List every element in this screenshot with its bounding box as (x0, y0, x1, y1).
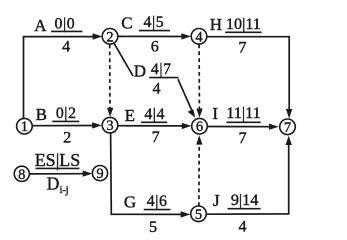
node 4 (191, 29, 207, 46)
label activity I (212, 104, 260, 147)
svg-text:1: 1 (21, 119, 28, 135)
svg-text:C: C (121, 14, 132, 33)
node 5 (191, 206, 207, 223)
svg-text:4: 4 (62, 38, 70, 56)
legend wire node 8 to node 9 (30, 173, 84, 175)
node 9 (legend) (92, 166, 107, 183)
wire I (node 6 to node 7) (208, 126, 270, 128)
svg-text:D: D (47, 174, 60, 194)
label legend ES|LS (35, 150, 81, 170)
svg-text:4|6: 4|6 (147, 193, 168, 210)
svg-text:4: 4 (153, 80, 161, 98)
arrowhead J into node 7 bottom (286, 136, 292, 145)
label activity J (213, 191, 261, 236)
svg-text:4: 4 (239, 218, 247, 233)
svg-text:7: 7 (284, 120, 291, 136)
label activity H (210, 15, 262, 56)
dashed dummy wire node 5 to node 6 (198, 144, 200, 207)
svg-text:ES|LS: ES|LS (35, 150, 81, 170)
wire B (node 1 to node 3) (32, 125, 93, 127)
svg-text:I: I (212, 104, 218, 123)
label activity D (134, 61, 179, 97)
svg-text:i-j: i-j (60, 185, 69, 196)
svg-text:7: 7 (238, 38, 246, 56)
wire J (elbow from node 5 right then up to node 7) (206, 144, 288, 214)
svg-text:E: E (125, 106, 135, 125)
label activity A (34, 15, 82, 55)
svg-text:B: B (36, 105, 47, 124)
label activity G (124, 192, 171, 235)
svg-text:6: 6 (151, 38, 159, 56)
svg-text:7: 7 (238, 129, 246, 147)
wire A (elbow from node 1 up then right to node 2) (24, 37, 94, 119)
wire H (elbow from node 4 right then down to node 7) (207, 37, 289, 110)
svg-text:2: 2 (63, 129, 71, 147)
svg-text:4|4: 4|4 (144, 106, 165, 123)
svg-text:10|11: 10|11 (226, 15, 261, 33)
svg-text:4|5: 4|5 (144, 14, 165, 31)
arrowhead B into node 3 (92, 122, 102, 128)
node 1 (17, 118, 33, 135)
svg-text:D: D (134, 61, 146, 80)
arrowhead I into node 7 (269, 124, 279, 130)
arrowhead G into node 5 (181, 211, 191, 217)
node 8 (legend) (14, 166, 29, 183)
svg-text:0|0: 0|0 (55, 15, 76, 32)
node 6 (192, 118, 208, 135)
arrowhead A into node 2 (93, 33, 103, 39)
svg-text:7: 7 (152, 128, 160, 146)
svg-text:5: 5 (149, 218, 157, 233)
arrowhead dummy into node 6 top (196, 109, 202, 118)
node 3 (102, 117, 118, 134)
svg-text:G: G (124, 192, 136, 211)
dashed dummy wire node 2 to node 3 (109, 45, 111, 109)
svg-text:9: 9 (96, 166, 103, 182)
svg-text:H: H (210, 15, 222, 34)
arrowhead dummy into node 6 bottom (196, 135, 202, 144)
label legend D i-j (47, 174, 69, 196)
dashed dummy wire node 4 to node 6 (198, 44, 200, 109)
arrowhead dummy into node 3 top (107, 108, 113, 117)
svg-text:4|7: 4|7 (151, 61, 172, 78)
label activity C (121, 14, 170, 56)
svg-text:J: J (213, 191, 220, 210)
svg-text:11|11: 11|11 (226, 104, 260, 122)
svg-text:2: 2 (106, 29, 113, 45)
wire C (node 2 to node 4) (118, 35, 183, 37)
svg-text:0|2: 0|2 (56, 105, 77, 122)
arrowhead H into node 7 top (286, 109, 292, 119)
arrowhead D into node 6 (188, 109, 196, 118)
svg-text:3: 3 (106, 118, 113, 134)
wire D segment 2 (down-right to node 6) (178, 79, 192, 110)
svg-text:9|14: 9|14 (231, 191, 259, 209)
label activity E (125, 106, 168, 146)
arrowhead legend into node 9 (83, 170, 93, 176)
svg-text:6: 6 (196, 119, 203, 135)
node 7 (280, 119, 296, 136)
wire E (node 3 to node 6) (118, 125, 183, 127)
svg-text:8: 8 (18, 167, 25, 183)
node 2 (102, 29, 118, 46)
svg-text:5: 5 (195, 207, 202, 223)
svg-text:4: 4 (195, 29, 203, 45)
arrowhead E into node 6 (182, 123, 192, 129)
wire G (elbow from node 3 down then right to node 5) (111, 133, 182, 214)
arrowhead C into node 4 (181, 33, 191, 39)
label activity B (36, 105, 80, 147)
svg-text:A: A (34, 16, 47, 35)
wire D segment 1 (from node 2 down-right) (114, 43, 133, 76)
